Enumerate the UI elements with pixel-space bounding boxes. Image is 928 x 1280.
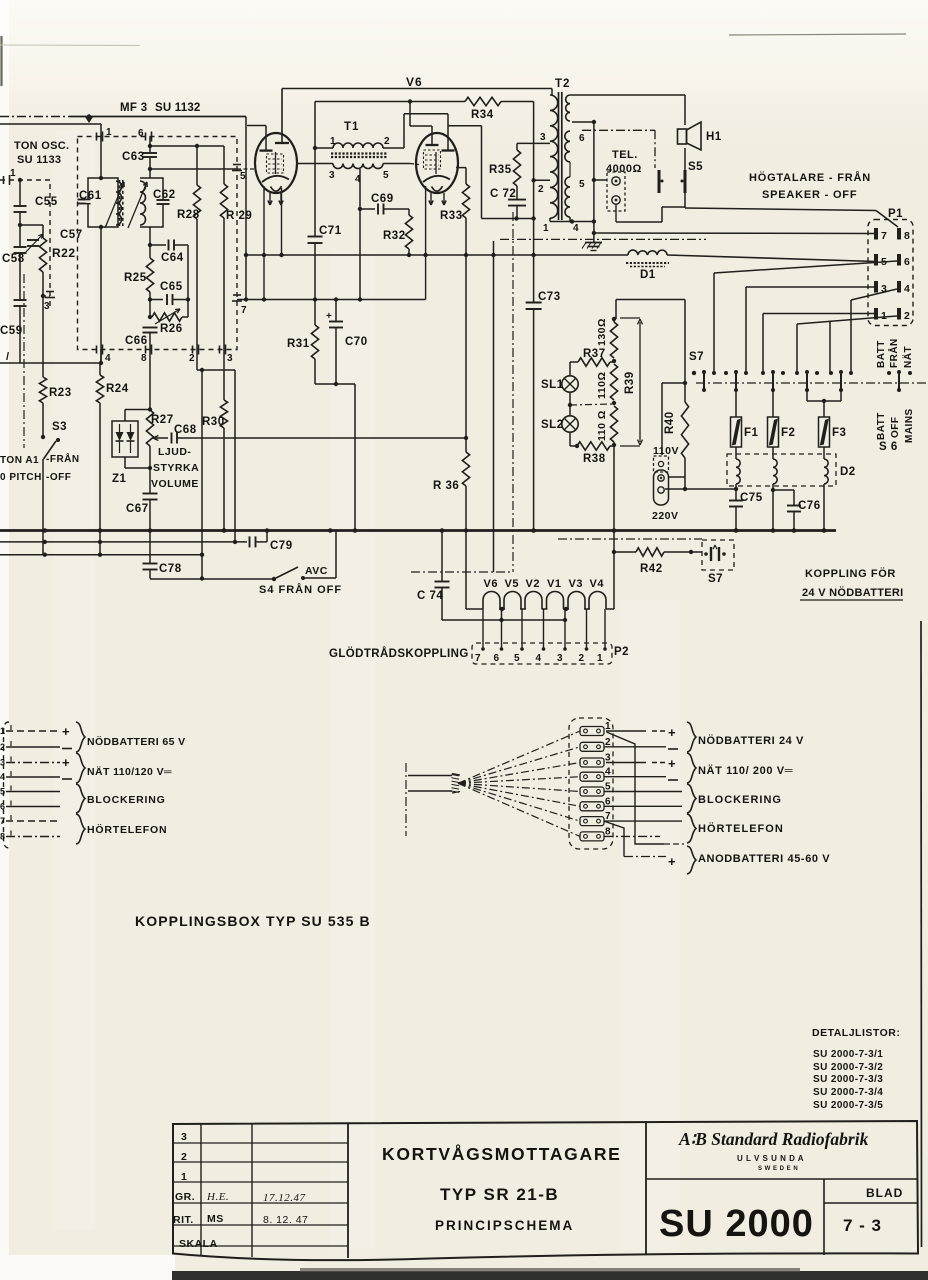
terminal 1 (580, 727, 604, 736)
terminal 7 (580, 817, 604, 826)
svg-text:R24: R24 (106, 383, 129, 395)
svg-text:NÄT 110/ 200 V═: NÄT 110/ 200 V═ (698, 764, 793, 777)
wire left edge to R22 (20, 224, 43, 226)
wire V6 anode top line (282, 88, 552, 90)
svg-text:+: + (62, 755, 70, 770)
svg-text:DETALJLISTOR:: DETALJLISTOR: (812, 1027, 900, 1039)
svg-text:BLAD: BLAD (866, 1186, 903, 1200)
svg-text:ANODBATTERI 45-60 V: ANODBATTERI 45-60 V (698, 853, 830, 865)
capacitor C70 electrolytic (335, 300, 337, 322)
svg-text:SU 2000-7-3/1: SU 2000-7-3/1 (813, 1049, 883, 1060)
svg-text:1: 1 (181, 1171, 187, 1183)
connector kopplingsbox left dashed outline (4, 722, 10, 848)
svg-text:+: + (668, 756, 676, 771)
tube V6b grid cap (409, 102, 411, 127)
wire S6 feed (829, 321, 831, 374)
svg-text:/: / (6, 351, 10, 363)
svg-text:6: 6 (494, 653, 500, 664)
cable dashdot border (405, 763, 407, 836)
page left edge mark (0, 36, 2, 86)
svg-text:NÖDBATTERI 65 V: NÖDBATTERI 65 V (87, 735, 186, 748)
svg-text:4000Ω: 4000Ω (606, 163, 642, 175)
wire P1 pin4 branch (851, 289, 897, 300)
svg-text:C78: C78 (159, 563, 182, 575)
resistor R29 (223, 146, 225, 184)
resistor R33 (456, 167, 466, 169)
svg-text:C67: C67 (126, 503, 149, 515)
wire fan lead 4 (458, 777, 580, 784)
capacitor C57 trimmer (27, 239, 39, 241)
terminal 4 (580, 772, 604, 781)
svg-text:SU 1133: SU 1133 (17, 154, 61, 166)
svg-text:C75: C75 (740, 492, 763, 504)
wire T2 sec taps (572, 121, 594, 123)
svg-text:5: 5 (383, 170, 389, 181)
svg-text:R 36: R 36 (433, 480, 459, 492)
svg-text:H1: H1 (706, 131, 722, 143)
P1 pin7 (874, 228, 878, 240)
svg-text:R35: R35 (489, 164, 512, 176)
svg-text:R27: R27 (151, 414, 174, 426)
wire fan lead 8 (458, 783, 580, 836)
rectifier Z1 (125, 409, 150, 411)
wire left dash-dot (23, 274, 25, 448)
page right border (921, 621, 923, 1247)
tube V6a (255, 133, 297, 193)
wire MF3 top line (0, 116, 70, 118)
capacitor C67 (143, 493, 158, 495)
P2 pin 6 (501, 620, 503, 649)
tube heater V2 (525, 592, 542, 610)
S6 pole bar (735, 371, 737, 391)
svg-text:KORTVÅGSMOTTAGARE: KORTVÅGSMOTTAGARE (382, 1144, 622, 1164)
svg-text:R34: R34 (471, 109, 494, 121)
wire plate decoupling (448, 125, 482, 127)
S6 pole bar (703, 371, 705, 391)
switch S5 (658, 170, 661, 193)
node MF3 pin3 (219, 346, 221, 354)
svg-text:C65: C65 (160, 281, 183, 293)
svg-text:TON A1: TON A1 (0, 455, 39, 466)
terminal 3 (580, 758, 604, 767)
resistor R37 (570, 361, 578, 363)
node MF3 pin4 (96, 346, 98, 354)
resistor R26 with arrow (152, 313, 182, 321)
svg-text:A∶B Standard Radiofabrik: A∶B Standard Radiofabrik (678, 1129, 869, 1149)
svg-text:R32: R32 (383, 230, 406, 242)
P1 pin5 (874, 254, 878, 266)
node MF3 pin8 (145, 346, 147, 354)
wire speaker top line (570, 94, 685, 96)
svg-text:2: 2 (904, 310, 910, 322)
svg-text:SKALA: SKALA (179, 1238, 218, 1250)
svg-text:1: 1 (881, 310, 887, 322)
IF transformer C61 box (88, 178, 118, 227)
svg-text:17.12.47: 17.12.47 (263, 1192, 306, 1204)
core (119, 180, 121, 226)
capacitor C69 (360, 208, 375, 210)
resistor R28 (196, 146, 198, 185)
svg-text:BLOCKERING: BLOCKERING (87, 794, 166, 806)
wire lead 1 (6, 730, 60, 732)
P1 pin1 (874, 308, 878, 320)
wire C62 box to grid line (149, 169, 151, 178)
svg-text:U L V S U N D A: U L V S U N D A (737, 1154, 804, 1163)
connector strip dashed outline (569, 718, 613, 849)
page bottom dark edge (172, 1271, 928, 1280)
title block horizontals (646, 1178, 917, 1180)
svg-text:+: + (326, 311, 332, 322)
svg-text:3: 3 (540, 132, 546, 143)
volume wiper C68 line (153, 436, 158, 439)
wire dashdot y239 (500, 238, 706, 240)
svg-text:NÄT: NÄT (901, 346, 914, 368)
wire P1 pin3 branch (746, 286, 876, 288)
P2 pin 4 (543, 609, 545, 649)
wire T1 tap4 (359, 169, 361, 300)
svg-text:R 29: R 29 (226, 210, 252, 222)
svg-text:R33: R33 (440, 210, 463, 222)
svg-text:7: 7 (475, 653, 481, 664)
svg-text:7: 7 (881, 230, 887, 242)
svg-text:R28: R28 (177, 209, 200, 221)
svg-text:PRINCIPSCHEMA: PRINCIPSCHEMA (435, 1218, 574, 1233)
svg-text:3: 3 (557, 653, 563, 664)
wire P1 pin6 branch (714, 261, 897, 273)
resistor R35 (516, 143, 518, 150)
svg-text:SL1: SL1 (541, 379, 564, 391)
coil T2 secondary top (566, 95, 570, 121)
node MF3 pin6 (145, 133, 147, 141)
resistor R27 potentiometer (149, 355, 151, 410)
svg-text:R25: R25 (124, 272, 147, 284)
svg-text:220V: 220V (652, 510, 679, 522)
fuse F2 (772, 391, 774, 417)
inductor D1 (628, 250, 667, 255)
tube V6b interior (424, 150, 441, 169)
svg-text:R31: R31 (287, 338, 310, 350)
node MF3 pin2 (192, 346, 194, 354)
cable (408, 775, 452, 777)
svg-text:NÖDBATTERI 24 V: NÖDBATTERI 24 V (698, 734, 804, 747)
svg-text:C59: C59 (0, 325, 23, 337)
resistor R34 (465, 97, 501, 105)
svg-text:S5: S5 (688, 161, 703, 173)
wire third bus y554.7 (0, 554, 202, 556)
wire dashdot to S5 (582, 129, 655, 131)
svg-text:BLOCKERING: BLOCKERING (698, 794, 782, 806)
svg-text:C73: C73 (538, 291, 561, 303)
capacitor C76 (773, 489, 794, 491)
capacitor C79 (249, 536, 251, 547)
tube V6a grid cap (247, 125, 266, 127)
svg-text:S W E D E N: S W E D E N (758, 1166, 798, 1172)
capacitor C75 (735, 484, 737, 500)
resistor R25 (146, 258, 153, 292)
T2 core (558, 92, 560, 220)
fuse F3 Y feed (806, 391, 808, 401)
svg-text:C55: C55 (35, 196, 58, 208)
wire long vertical x493 (493, 241, 495, 572)
title block outer frame (173, 1121, 918, 1260)
svg-text:R38: R38 (583, 453, 606, 465)
fuse F1 (735, 391, 737, 417)
svg-text:2: 2 (181, 1151, 187, 1163)
svg-text:C79: C79 (270, 540, 293, 552)
svg-text:LJUD-: LJUD- (158, 446, 191, 458)
P1 pin6 (897, 254, 901, 266)
svg-text:4: 4 (536, 653, 542, 664)
resistor R24 (99, 363, 101, 375)
P1 pin4 (897, 281, 901, 293)
switch S6 rail (696, 382, 928, 384)
choke D2a (736, 459, 740, 484)
svg-text:D1: D1 (640, 269, 656, 281)
wire speaker-off to P1 pin8 (685, 208, 876, 211)
tube V6a lead2 (281, 188, 283, 255)
svg-text:+: + (668, 854, 676, 869)
P1 pin3 (874, 281, 878, 293)
S6 pole bar (806, 371, 808, 391)
svg-text:6: 6 (0, 802, 6, 812)
tube V6a plate (281, 89, 283, 144)
svg-text:NÄT 110/120 V═: NÄT 110/120 V═ (87, 765, 172, 778)
wire lead 4 (6, 776, 60, 778)
module MF3 SU1132 dashed box (78, 137, 238, 350)
wire lamp tap dashdot (570, 404, 614, 405)
svg-text:3: 3 (329, 170, 335, 181)
svg-text:8. 12. 47: 8. 12. 47 (263, 1214, 308, 1226)
wire lead 2 (6, 746, 60, 748)
svg-text:STYRKA: STYRKA (153, 462, 199, 474)
svg-text:RIT.: RIT. (173, 1214, 194, 1226)
svg-text:HÖGTALARE - FRÅN: HÖGTALARE - FRÅN (749, 171, 871, 184)
svg-text:C76: C76 (798, 500, 821, 512)
capacitor C65 (150, 299, 163, 301)
svg-text:1: 1 (543, 223, 549, 234)
wire pin1 to C61 box (100, 137, 102, 179)
ground (593, 233, 595, 243)
switch S4 AVC (272, 577, 276, 581)
svg-text:C63: C63 (122, 151, 145, 163)
connector P1 dashed box (868, 220, 913, 326)
svg-text:C62: C62 (153, 189, 176, 201)
wire vertical from MF line corner (245, 117, 247, 300)
tube V6a cathode lead (263, 186, 265, 300)
wire P1 pin2 branch (797, 316, 897, 324)
tube V6b cathode lead (425, 186, 427, 300)
svg-text:TON OSC.: TON OSC. (14, 140, 69, 152)
svg-text:2: 2 (384, 136, 390, 147)
svg-text:+: + (62, 724, 70, 739)
svg-text:T2: T2 (555, 78, 570, 90)
wire ground to P1 pin7 (594, 232, 876, 235)
svg-text:S3: S3 (52, 421, 67, 433)
svg-text:C 72: C 72 (490, 188, 516, 200)
wire pole1 contact (692, 371, 696, 375)
svg-text:R23: R23 (49, 387, 72, 399)
wire y363 (0, 362, 101, 364)
svg-text:TEL.: TEL. (612, 149, 638, 161)
coil T1 primary (333, 143, 383, 148)
svg-text:V6: V6 (484, 578, 498, 590)
svg-text:GR.: GR. (175, 1191, 195, 1203)
svg-text:VOLUME: VOLUME (151, 478, 199, 490)
tube heater V4 (589, 592, 606, 610)
svg-text:SL2: SL2 (541, 419, 564, 431)
svg-text:7 - 3: 7 - 3 (843, 1216, 882, 1235)
wire lead 5 (6, 791, 60, 793)
page top-right edge line (729, 34, 906, 35)
svg-text:0 PITCH: 0 PITCH (0, 472, 42, 483)
svg-text:2: 2 (189, 353, 195, 364)
P2 pin 5 (521, 609, 523, 649)
coil T2 secondary mid (565, 131, 570, 162)
P1 pin8 (897, 228, 901, 240)
svg-text:7: 7 (241, 305, 247, 316)
capacitor C74 (441, 531, 443, 582)
svg-text:1: 1 (330, 136, 336, 147)
svg-text:8: 8 (904, 230, 910, 242)
wire fan lead 6 (458, 783, 580, 806)
svg-text:D2: D2 (840, 466, 856, 478)
svg-text:SU 2000-7-3/4: SU 2000-7-3/4 (813, 1087, 883, 1098)
title block verticals (200, 1124, 202, 1255)
svg-text:R26: R26 (160, 323, 183, 335)
svg-text:C66: C66 (125, 335, 148, 347)
wire dashdot x513 (512, 212, 514, 572)
resistor R30 (223, 398, 225, 400)
svg-text:R30: R30 (202, 416, 225, 428)
svg-text:6: 6 (579, 133, 585, 144)
svg-text:8: 8 (0, 832, 6, 842)
svg-text:AVC: AVC (305, 565, 328, 577)
wire to C79 line vertical (234, 370, 236, 542)
svg-text:-FRÅN: -FRÅN (46, 452, 80, 465)
lamp SL1 (569, 362, 571, 376)
svg-text:Z1: Z1 (112, 473, 127, 485)
wire grid line from C63 (150, 145, 224, 147)
svg-text:OFF: OFF (890, 417, 901, 439)
choke D2b (773, 459, 777, 484)
wire P1 pin1 branch (763, 313, 876, 315)
resistor R22 (42, 225, 44, 238)
svg-text:SU 2000-7-3/2: SU 2000-7-3/2 (813, 1062, 883, 1073)
tube V6b heater leads (430, 193, 432, 203)
svg-text:5: 5 (240, 171, 246, 182)
braces left (76, 722, 85, 752)
svg-text:FRÅN: FRÅN (887, 338, 900, 368)
svg-text:5: 5 (579, 179, 585, 190)
wire C62 box down (149, 227, 151, 258)
capacitor C64 (150, 244, 166, 246)
speaker H1 (678, 129, 687, 144)
svg-text:BATT: BATT (876, 412, 887, 440)
svg-text:V5: V5 (505, 578, 519, 590)
svg-text:2: 2 (0, 742, 6, 752)
resistor R42 (614, 551, 636, 553)
wire fan lead 1 (458, 731, 580, 783)
svg-text:R39: R39 (624, 371, 636, 394)
P2 pin 1 (604, 609, 606, 649)
anodbatteri wires (607, 732, 665, 844)
wire fan lead 7 (458, 783, 580, 821)
T1 core (331, 152, 387, 154)
tube V6a heater leads (269, 193, 271, 203)
svg-text:C70: C70 (345, 336, 368, 348)
svg-text:P1: P1 (888, 208, 903, 220)
tube V6b (416, 133, 458, 193)
svg-text:2: 2 (538, 184, 544, 195)
coil T2 secondary bottom (565, 177, 570, 217)
svg-text:3: 3 (44, 301, 50, 312)
svg-text:V4: V4 (590, 578, 605, 590)
svg-text:3: 3 (0, 758, 6, 768)
coil T-C61 secondary (116, 181, 122, 225)
svg-text:24 V NÖDBATTERI: 24 V NÖDBATTERI (802, 586, 903, 599)
svg-text:S4 FRÅN OFF: S4 FRÅN OFF (259, 583, 342, 596)
svg-text:1: 1 (10, 168, 16, 179)
wire R40 top jog (662, 382, 685, 384)
P2 pin 2 (586, 609, 588, 649)
svg-text:V2: V2 (526, 578, 540, 590)
svg-text:5: 5 (514, 653, 520, 664)
capacitor C66 (143, 327, 158, 329)
module TON OSC SU1133 dashed box (0, 180, 50, 306)
tube V6a interior (267, 154, 284, 173)
wire second bus y541.9 (0, 541, 247, 543)
terminal 6 (580, 802, 604, 811)
lamp SL2 (569, 392, 571, 416)
terminal 8 (580, 832, 604, 841)
wire main bus2 y255 with D1 (246, 254, 628, 256)
svg-text:4: 4 (573, 223, 579, 234)
svg-text:V1: V1 (547, 578, 561, 590)
capacitor C71 (314, 102, 316, 237)
wire second top line (315, 101, 465, 103)
svg-text:R22: R22 (52, 246, 76, 260)
svg-text:MAINS: MAINS (904, 408, 915, 443)
resistor R32 (408, 209, 410, 215)
tube heater V5 (504, 592, 521, 610)
S6 pole bar (840, 371, 842, 391)
P2 pin 7 (482, 609, 484, 649)
tube V6b plate (403, 114, 405, 148)
wire lead 7 (6, 820, 60, 822)
svg-text:S7: S7 (708, 573, 723, 585)
wire fan lead 2 (458, 747, 580, 784)
svg-text:110Ω: 110Ω (596, 372, 608, 399)
capacitor C78 (149, 531, 151, 564)
svg-text:110V: 110V (653, 445, 679, 457)
wire pin2 down (197, 369, 235, 371)
svg-text:C58: C58 (2, 253, 25, 265)
resistor R23 (39, 377, 46, 403)
capacitor C55 (19, 180, 21, 206)
svg-text:HÖRTELEFON: HÖRTELEFON (698, 822, 784, 835)
terminal 2 (580, 742, 604, 751)
wire C61 box to pin4 (100, 227, 102, 363)
resistor R36 (462, 452, 469, 486)
P2 pin 3 (564, 620, 566, 649)
svg-text:BATT: BATT (876, 340, 887, 368)
switch S7 lower (702, 540, 734, 570)
wire to pin1 (0, 123, 101, 125)
svg-text:V6: V6 (406, 75, 423, 89)
wire fan lead 5 (458, 783, 580, 791)
svg-text:C64: C64 (161, 252, 184, 264)
P1 pin2 (897, 308, 901, 320)
